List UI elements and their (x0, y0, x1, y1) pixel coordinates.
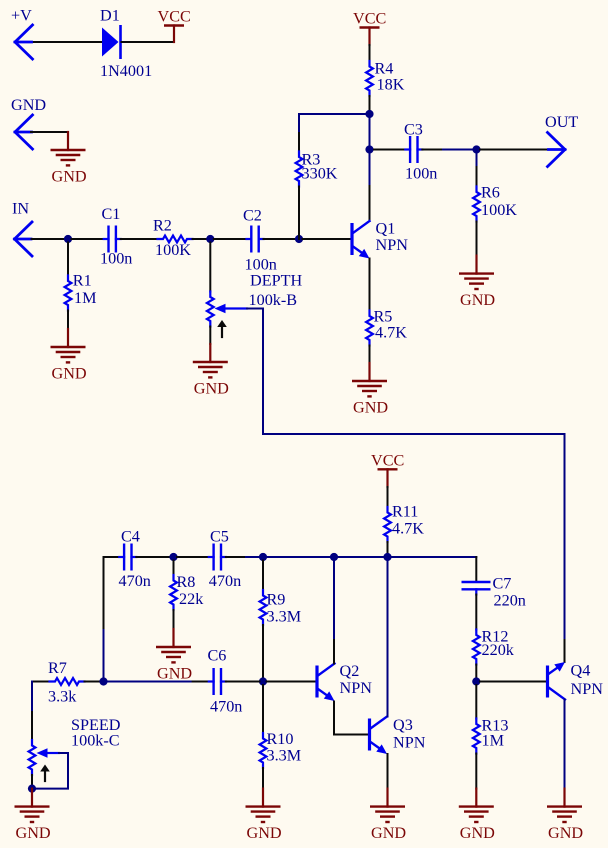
wire C1 to R2 (121, 238, 158, 240)
capacitor C1 100n (100, 205, 132, 268)
wire node H to node I (263, 556, 334, 558)
wire GND port to ground (31, 131, 68, 133)
svg-text:3.3k: 3.3k (48, 688, 77, 706)
svg-text:1M: 1M (74, 289, 97, 307)
svg-text:C1: C1 (102, 205, 121, 223)
ground (R6) (459, 256, 495, 310)
ground (R1) (51, 329, 87, 383)
node D junction (R4/R3 top) (365, 110, 373, 118)
wire node J to C7 top (388, 557, 477, 581)
transistor Q1 NPN (352, 220, 408, 259)
svg-text:4.7K: 4.7K (375, 324, 407, 342)
capacitor C2 100n (243, 207, 277, 274)
resistor R10 3.3M (260, 685, 302, 789)
power port VCC (top left) (158, 8, 191, 43)
capacitor C5 470n (209, 528, 241, 591)
svg-text:GND: GND (247, 824, 282, 842)
svg-text:R1: R1 (73, 272, 92, 290)
wire node I to node J (334, 556, 388, 558)
svg-text:C6: C6 (208, 647, 227, 665)
node E junction (Q1 collector / C3) (365, 145, 373, 153)
resistor R11 4.7K (384, 503, 424, 555)
wire DEPTH wiper link (247, 309, 565, 641)
ground (R10) (246, 789, 282, 843)
svg-text:NPN: NPN (340, 679, 373, 697)
svg-text:3.3M: 3.3M (267, 747, 302, 765)
svg-text:R7: R7 (48, 659, 67, 677)
wire node F to OUT (480, 149, 548, 151)
wire R2 to node B (193, 238, 207, 240)
wiper up-arrow (SPEED) (40, 765, 50, 782)
wire node G to C5 (177, 556, 209, 558)
resistor R9 3.3M (260, 561, 302, 679)
wire node L to C6 (107, 681, 209, 683)
wire IN to node A (32, 238, 65, 240)
svg-text:R2: R2 (153, 217, 172, 235)
svg-text:GND: GND (11, 96, 46, 114)
svg-text:GND: GND (157, 665, 192, 683)
svg-text:DEPTH: DEPTH (250, 272, 302, 290)
resistor R1 1M (65, 243, 97, 330)
svg-text:GND: GND (52, 168, 87, 186)
svg-text:100n: 100n (405, 165, 437, 183)
svg-text:GND: GND (548, 824, 583, 842)
resistor R2 100K (153, 217, 193, 260)
svg-text:100K: 100K (155, 241, 191, 259)
node A junction (64, 235, 72, 243)
svg-text:3.3M: 3.3M (267, 608, 302, 626)
svg-text:470n: 470n (119, 572, 151, 590)
wire SPEED wiper loop (36, 753, 69, 789)
svg-text:GND: GND (52, 365, 87, 383)
svg-text:4.7K: 4.7K (392, 520, 424, 538)
svg-text:330K: 330K (302, 165, 338, 183)
svg-text:C7: C7 (493, 575, 512, 593)
wire node C to Q1 base (303, 238, 352, 240)
port +V (11, 7, 33, 60)
wire oscillator rail left (C4 branch) (104, 557, 120, 678)
port IN (12, 200, 32, 257)
svg-text:220n: 220n (494, 592, 526, 610)
svg-text:D1: D1 (100, 7, 120, 25)
resistor R4 18K (366, 60, 405, 115)
svg-text:OUT: OUT (545, 113, 578, 131)
svg-text:GND: GND (16, 824, 51, 842)
wire C5 to node H (226, 556, 247, 558)
svg-text:1M: 1M (482, 732, 505, 750)
node G junction (R8 top) (169, 553, 177, 561)
svg-text:220k: 220k (482, 641, 515, 659)
wire node K to Q2 base (267, 681, 317, 683)
svg-text:VCC: VCC (158, 8, 191, 26)
svg-text:22k: 22k (179, 590, 204, 608)
svg-text:NPN: NPN (571, 680, 604, 698)
wire C4 to node G (136, 556, 170, 558)
wire C7 to R12 (475, 595, 477, 630)
power port VCC (R11) (371, 451, 404, 487)
svg-text:NPN: NPN (393, 734, 426, 752)
wire VCC to R11 (387, 487, 389, 507)
wire node E to C3 (374, 149, 405, 151)
node M junction (SPEED bottom) (28, 785, 36, 793)
svg-text:GND: GND (353, 399, 388, 417)
wire Q1 emitter to R5 (369, 259, 371, 311)
wire Q2 collector to node I (333, 561, 335, 664)
transistor Q3 NPN (370, 716, 426, 754)
svg-text:VCC: VCC (371, 451, 404, 469)
svg-text:R11: R11 (392, 503, 418, 521)
svg-text:Q3: Q3 (393, 716, 413, 734)
capacitor C7 220n (462, 575, 526, 610)
wire +V to D1 anode (29, 41, 102, 43)
node C junction (R3 bottom / Q1 base) (295, 235, 303, 243)
svg-text:VCC: VCC (353, 10, 386, 28)
ground (Q3) (370, 789, 406, 843)
node K junction (C6 / R9 / R10) (259, 677, 267, 685)
potentiometer SPEED 100k-C (29, 682, 121, 786)
svg-text:NPN: NPN (376, 236, 409, 254)
svg-text:Q4: Q4 (571, 662, 591, 680)
node F junction (C3/R6/OUT) (472, 145, 480, 153)
svg-text:100n: 100n (100, 250, 132, 268)
wire VCC to R4 (369, 45, 371, 61)
capacitor C6 470n (208, 647, 243, 716)
wire Q3 emitter to ground (387, 754, 389, 789)
wire node D to node E (369, 114, 371, 150)
port OUT (545, 113, 578, 167)
svg-text:Q1: Q1 (376, 220, 396, 238)
node B junction (206, 235, 214, 243)
svg-text:GND: GND (371, 824, 406, 842)
wire node A to C1 (72, 238, 104, 240)
power port VCC (R4) (353, 10, 386, 46)
wire Q2 emitter to Q3 base (334, 702, 369, 735)
svg-text:100K: 100K (481, 201, 517, 219)
ground (R13) (459, 789, 495, 843)
svg-text:470n: 470n (210, 698, 242, 716)
svg-text:GND: GND (194, 380, 229, 398)
wire node N to Q4 base (480, 681, 547, 683)
svg-text:R6: R6 (481, 184, 500, 202)
wire node B to C2 (214, 238, 247, 240)
wire C2 to node C (264, 238, 296, 240)
svg-text:C2: C2 (243, 207, 262, 225)
svg-text:100k-B: 100k-B (249, 291, 298, 309)
wire C3 to node F (422, 149, 473, 151)
svg-text:C4: C4 (121, 528, 140, 546)
wiper up-arrow (DEPTH) (217, 320, 227, 337)
svg-text:Q2: Q2 (340, 662, 360, 680)
resistor R5 4.7K (366, 308, 407, 364)
svg-text:1N4001: 1N4001 (100, 62, 152, 80)
svg-text:100k-C: 100k-C (71, 732, 120, 750)
wire node E down to Q1 collector (369, 150, 371, 222)
wire link to Q4 emitter (564, 640, 566, 662)
svg-text:GND: GND (460, 824, 495, 842)
svg-text:C3: C3 (404, 121, 423, 139)
wire D1 cathode to VCC (122, 41, 175, 43)
resistor R3 330K (296, 151, 338, 240)
node J junction (R11 bottom / Q3 collector) (383, 553, 391, 561)
ground (SPEED) (15, 789, 51, 843)
svg-text:R8: R8 (177, 573, 196, 591)
transistor Q4 NPN (emitter up) (548, 662, 604, 700)
svg-text:+V: +V (11, 7, 32, 25)
wire node D to R3 top (299, 114, 370, 152)
wire Q4 collector to ground (564, 700, 566, 789)
svg-text:C5: C5 (210, 528, 229, 546)
resistor R13 1M (473, 685, 509, 789)
port GND (input ground) (11, 96, 46, 149)
node H junction (R9 top) (246, 553, 267, 561)
svg-text:IN: IN (12, 200, 29, 218)
capacitor C4 470n (119, 528, 151, 591)
wire C6 to node K (226, 681, 260, 683)
node L junction (R7 / C4 branch) (99, 677, 107, 685)
resistor R12 220k (473, 628, 515, 679)
transistor Q2 NPN (317, 662, 372, 701)
ground (R5) (352, 363, 388, 417)
svg-text:R10: R10 (267, 730, 294, 748)
svg-text:GND: GND (460, 291, 495, 309)
node N junction (R12 / R13 / Q4 base) (472, 677, 480, 685)
ground (R8) (156, 629, 192, 683)
resistor R8 22k (170, 561, 204, 630)
svg-text:18K: 18K (377, 76, 405, 94)
resistor R7 3.3k (32, 659, 101, 706)
wire Q3 collector to node J (387, 561, 389, 717)
potentiometer DEPTH 100k-B (207, 243, 303, 345)
ground (input) (51, 132, 87, 186)
svg-text:470n: 470n (209, 572, 241, 590)
node I junction (Q2 collector) (330, 553, 338, 561)
capacitor C3 100n (404, 121, 437, 183)
ground (DEPTH) (193, 344, 229, 398)
resistor R6 100K (473, 150, 517, 256)
diode D1 1N4001 (100, 7, 152, 81)
ground (Q4) (547, 789, 583, 843)
svg-text:R9: R9 (267, 591, 286, 609)
